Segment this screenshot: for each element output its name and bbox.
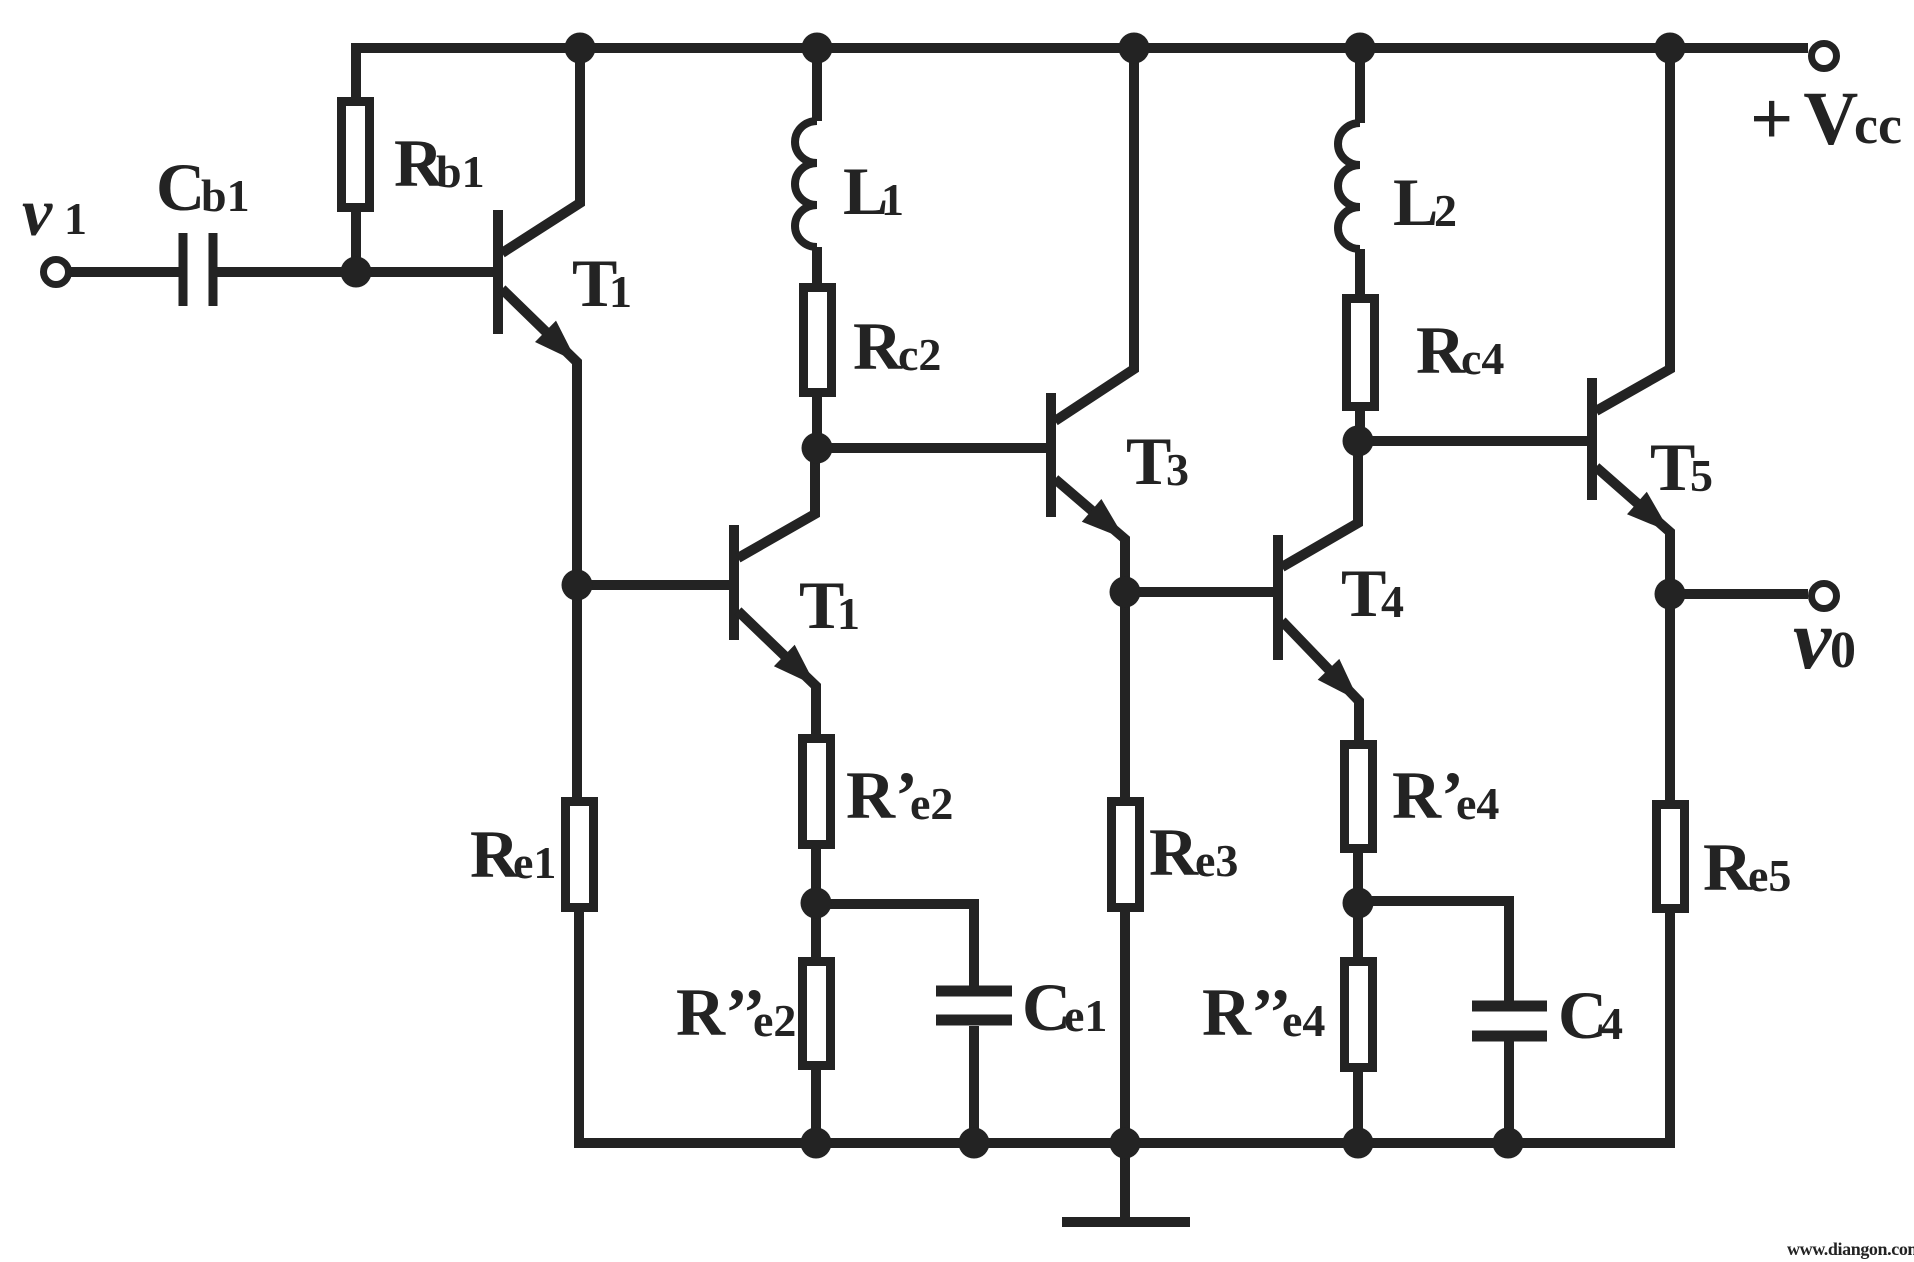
junction dot node R'e2/R''e2 xyxy=(801,888,832,919)
svg-text:Re5: Re5 xyxy=(1703,829,1791,905)
wire Cb1 right plate to junction to T1 base xyxy=(217,267,494,277)
transistor Q T1 top: bar xyxy=(493,210,503,334)
arrow T1 top emitter xyxy=(535,321,577,362)
svg-text:R’e2: R’e2 xyxy=(846,757,953,833)
capacitor Ce1 xyxy=(936,991,1012,1020)
svg-text:R’e4: R’e4 xyxy=(1392,757,1499,833)
capacitor C4 xyxy=(1472,1006,1547,1036)
svg-text:Re1: Re1 xyxy=(470,816,556,892)
wire junction down to Re1 xyxy=(572,585,582,801)
junction dot bottom rail R''e2 xyxy=(801,1128,832,1159)
junction dot top rail T3 collector xyxy=(1119,33,1150,64)
terminal v0 xyxy=(1812,584,1837,609)
transistor T3 bar xyxy=(1046,393,1056,517)
resistor Rb1 xyxy=(342,102,370,208)
junction dot node below Rc4 xyxy=(1343,426,1374,457)
svg-text:T1: T1 xyxy=(572,245,632,321)
ground stem xyxy=(1120,1143,1130,1222)
wire T3 collector xyxy=(1055,48,1134,421)
wire R''e4 bottom to rail xyxy=(1353,1068,1363,1143)
svg-text:R’’e2: R’’e2 xyxy=(676,974,796,1050)
wire junction down to Re5 xyxy=(1665,594,1675,804)
svg-text:T3: T3 xyxy=(1126,423,1189,499)
wire junction to C4 xyxy=(1358,901,1509,1001)
wire junction down to Re3 xyxy=(1120,592,1130,801)
inductor L2 xyxy=(1355,48,1365,123)
junction dot top rail T5 collector xyxy=(1655,33,1686,64)
wire Re3 bottom to rail xyxy=(1120,908,1130,1143)
svg-text:Re3: Re3 xyxy=(1149,814,1238,890)
terminal v1 xyxy=(44,260,69,285)
junction dot top rail T1 collector xyxy=(565,33,596,64)
junction dot node T4 base xyxy=(1110,577,1141,608)
wire junction to T5 base xyxy=(1358,436,1588,446)
inductor L1 xyxy=(812,48,822,121)
wire Rc2 bottom to junction xyxy=(812,393,822,448)
svg-text:Ce1: Ce1 xyxy=(1022,969,1107,1045)
svg-text:Rb1: Rb1 xyxy=(394,125,485,201)
svg-text:T4: T4 xyxy=(1341,555,1404,631)
resistor Re3 xyxy=(1112,802,1140,908)
junction dot bottom rail Ce1 xyxy=(959,1128,990,1159)
wire junction to R''e4 top xyxy=(1353,903,1363,961)
resistor Re5 xyxy=(1657,805,1685,909)
wire Ce1 bottom to rail xyxy=(969,1026,979,1143)
wire T4 collector xyxy=(1282,441,1358,567)
ground bar xyxy=(1062,1217,1190,1227)
svg-text:v1: v1 xyxy=(22,174,87,250)
svg-text:v0: v0 xyxy=(1793,591,1856,687)
svg-text:Cb1: Cb1 xyxy=(156,149,250,225)
wire T3 emitter xyxy=(1055,479,1125,592)
wire R''e2 bottom to rail xyxy=(811,1066,821,1143)
junction dot bottom rail ground xyxy=(1110,1128,1141,1159)
wire T1b collector xyxy=(738,448,815,558)
wire base T1b from junction xyxy=(577,580,730,590)
junction dot node below Rc2 xyxy=(802,433,833,464)
wire R'e4 bottom to junction xyxy=(1353,848,1363,903)
junction dot top rail L2 xyxy=(1345,33,1376,64)
svg-text:T5: T5 xyxy=(1650,429,1713,505)
arrow T1 middle emitter xyxy=(774,645,816,686)
resistor Re1 xyxy=(566,802,594,908)
wire T5 collector xyxy=(1596,48,1670,411)
svg-text:Rc4: Rc4 xyxy=(1416,312,1504,388)
arrow T4 emitter xyxy=(1318,659,1359,701)
junction dot node T1b base xyxy=(562,570,593,601)
wire T4 emitter xyxy=(1282,621,1359,744)
wire T5 emitter junction to v0 xyxy=(1670,589,1808,599)
resistor R'e4 xyxy=(1345,745,1373,849)
wire T3 emitter junction to T4 base xyxy=(1125,587,1274,597)
junction dot bottom rail R''e4 xyxy=(1343,1128,1374,1159)
resistor Rc2 xyxy=(804,288,832,393)
transistor T4 bar xyxy=(1273,535,1283,660)
junction dot v1 base node xyxy=(341,257,372,288)
svg-text:T1: T1 xyxy=(799,567,860,643)
wire R'e2 bottom to junction xyxy=(811,845,821,903)
junction dot bottom rail C4 xyxy=(1493,1128,1524,1159)
wire junction to R''e2 top xyxy=(811,903,821,961)
junction dot node T5 emitter xyxy=(1655,579,1686,610)
transistor T5 bar xyxy=(1587,378,1597,500)
svg-text:C4: C4 xyxy=(1558,977,1623,1053)
resistor R''e2 xyxy=(803,962,831,1066)
arrow T5 emitter xyxy=(1627,492,1670,532)
terminal +Vcc xyxy=(1812,44,1837,69)
wire T5 emitter xyxy=(1596,467,1670,594)
svg-text:Rc2: Rc2 xyxy=(853,308,941,384)
resistor R'e2 xyxy=(803,739,831,845)
wire junction to T3 base xyxy=(817,443,1047,453)
wire T1 top collector xyxy=(502,48,580,253)
svg-text:L2: L2 xyxy=(1393,164,1457,240)
wire C4 bottom to rail xyxy=(1504,1041,1514,1143)
wire T1b emitter xyxy=(738,611,816,738)
junction dot top rail L1 xyxy=(802,33,833,64)
wire top rail with left drop to Rb1 xyxy=(356,48,1808,101)
svg-text:+Vcc: +Vcc xyxy=(1750,77,1902,161)
wire junction to Ce1 xyxy=(816,904,974,986)
wire Rb1 bottom to base junction xyxy=(351,208,361,272)
wire Rc4 bottom to junction xyxy=(1355,407,1365,441)
transistor T1 middle: bar xyxy=(729,525,739,640)
capacitor Cb1 xyxy=(183,233,213,306)
svg-text:L1: L1 xyxy=(843,153,904,229)
wire bottom rail with Re1 and Re5 risers xyxy=(579,908,1670,1143)
wire T1 top emitter xyxy=(502,289,577,585)
arrow T3 emitter xyxy=(1082,499,1125,539)
resistor Rc4 xyxy=(1347,299,1375,407)
wire v1 to Cb1 left plate xyxy=(69,267,179,277)
junction dot node R'e4/R''e4 xyxy=(1343,888,1374,919)
resistor R''e4 xyxy=(1345,962,1373,1068)
svg-text:R’’e4: R’’e4 xyxy=(1202,974,1325,1050)
svg-text:www.diangon.com: www.diangon.com xyxy=(1787,1239,1914,1259)
